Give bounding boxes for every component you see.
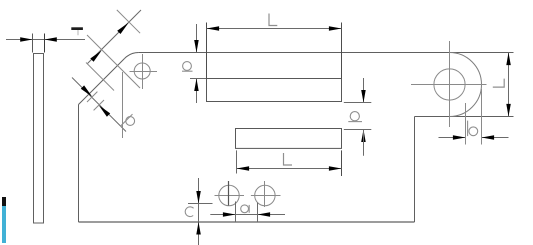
hole top-left horizontal centerline xyxy=(130,71,158,73)
dimension b right: left extension line xyxy=(465,103,467,145)
dimension b middle: up arrow xyxy=(361,130,366,143)
dimension L top: right arrow xyxy=(329,26,342,31)
dimension t extension line right xyxy=(44,34,46,53)
hole bottom 2 horizontal centerline xyxy=(251,195,281,197)
chamfer dimension D1: lower arrow xyxy=(90,50,101,61)
chamfer baseline extension B xyxy=(86,63,114,91)
chamfer dimension D2: extension line P2 xyxy=(94,100,104,110)
dimension L right: top arrow xyxy=(506,53,511,66)
dimension b middle: upper tick xyxy=(344,102,372,104)
dimension L right: dimension line xyxy=(508,53,510,117)
dimension b middle: lower tick xyxy=(344,129,372,131)
hole right vertical centerline xyxy=(449,41,451,127)
chamfer vertical extension line xyxy=(122,72,124,138)
label L top xyxy=(269,14,277,26)
part outline: left edge xyxy=(78,105,80,223)
part outline: right rounded lobe xyxy=(450,53,482,117)
dimension c: dimension line xyxy=(198,178,200,245)
dimension L top: left extension line xyxy=(206,23,208,79)
dimension b middle: upper dim line xyxy=(363,78,365,103)
hole bottom 2 xyxy=(255,185,275,205)
cyan bar black tip xyxy=(2,197,7,206)
dimension L slot2: left arrow xyxy=(237,166,250,171)
label b slot1-left (rotated) xyxy=(182,62,193,72)
dimension L top: left arrow xyxy=(207,26,220,31)
dimension b right: left tail xyxy=(439,137,466,139)
label b middle (rotated) xyxy=(348,112,362,122)
dimension b slot1-left: dim line lower part xyxy=(196,79,198,104)
chamfer dimension D2: dimension line xyxy=(72,78,126,132)
dimension b right: right arrow xyxy=(482,135,495,140)
dimension a bottom: dimension line xyxy=(210,214,285,216)
dimension t arrow right xyxy=(45,37,57,42)
side view plate rectangle xyxy=(34,54,44,224)
chamfer dimension D2: upper arrow (points down-right) xyxy=(81,85,92,96)
label b chamfer (rotated 45) xyxy=(120,114,134,126)
chamfer dimension D1: extension line E1 xyxy=(117,10,140,33)
cyan UI bar bottom-left xyxy=(2,197,7,243)
dimension t extension line left xyxy=(32,34,34,53)
chamfer dimension D1: extension line E2 xyxy=(87,35,140,88)
chamfer dimension D1: dimension line xyxy=(88,10,142,64)
dimension b right: right tail xyxy=(482,137,509,139)
label a bottom xyxy=(241,205,249,213)
dimension a bottom: right extension line xyxy=(257,203,259,222)
label b right xyxy=(468,121,478,137)
hole right (large) xyxy=(434,69,465,100)
label t: hook stroke xyxy=(77,30,79,35)
dimension a bottom: right arrow (points left) xyxy=(258,212,271,217)
dimension b slot1-left: extension tick xyxy=(190,78,206,80)
dimension L right: bottom arrow xyxy=(506,104,511,117)
chamfer dimension D2: extension line P1 xyxy=(87,92,97,102)
dimension L top: right extension line xyxy=(341,23,343,79)
dimension L slot2: right arrow xyxy=(329,166,342,171)
dimension b middle: lower dim line xyxy=(363,130,365,156)
dimension t arrow left xyxy=(20,37,32,42)
label L slot2 xyxy=(284,153,293,165)
chamfer dimension D1: upper arrow xyxy=(117,23,128,34)
dimension L top: dimension line xyxy=(207,28,342,30)
hole top-left (near chamfer) xyxy=(134,63,150,79)
dimension c: up arrow xyxy=(196,222,201,235)
label c (rotated) xyxy=(185,207,193,217)
dimension b right: right extension line xyxy=(481,89,483,145)
chamfer dimension D2: lower arrow (points up-left) xyxy=(99,105,110,116)
dimension b slot1-left: up arrow xyxy=(194,79,199,92)
part outline: top edge with extension to right L dim xyxy=(139,52,514,54)
part outline: chamfer edge xyxy=(79,58,125,104)
dimension c: extension tick xyxy=(188,203,213,205)
dimension a bottom: left arrow (points right) xyxy=(223,212,236,217)
hole right horizontal centerline xyxy=(411,84,487,86)
dimension c: down arrow xyxy=(196,191,201,204)
dimension L slot2: dimension line xyxy=(237,168,342,170)
dimension L slot2: left extension line xyxy=(236,150,238,173)
dimension b slot1-left: down arrow xyxy=(194,40,199,53)
part outline: step edge with extension to right L dim xyxy=(415,116,514,118)
slot 2 rectangle xyxy=(236,129,342,149)
dimension L slot2: right extension line xyxy=(341,150,343,176)
dimension b right: left arrow xyxy=(453,135,466,140)
hole top-left vertical centerline xyxy=(142,54,144,89)
label t: dark bar xyxy=(71,27,83,30)
part outline: top-left fillet arc xyxy=(125,52,139,58)
hole bottom 1 vertical centerline xyxy=(228,181,230,206)
hole bottom 1 xyxy=(219,185,239,205)
part outline: lower right edge xyxy=(414,117,416,223)
label L right (rotated) xyxy=(493,79,504,88)
part outline: bottom edge xyxy=(79,221,415,223)
dimension t line xyxy=(6,39,85,41)
dimension b middle: down arrow xyxy=(361,90,366,103)
slot 1 rectangle xyxy=(207,79,342,102)
dimension b slot1-left: dim line upper part xyxy=(196,24,198,53)
hole bottom 2 vertical centerline xyxy=(264,181,266,207)
hole bottom 1 horizontal centerline xyxy=(215,195,245,197)
dimension a bottom: left extension line xyxy=(235,202,237,223)
